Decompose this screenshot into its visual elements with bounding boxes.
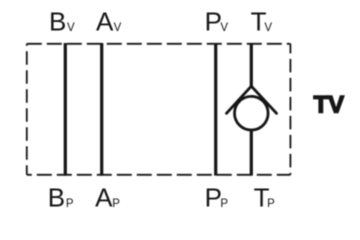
svg-text:A: A (96, 6, 114, 36)
dashed enclosure right edge (289, 44, 291, 175)
svg-text:P: P (66, 198, 74, 210)
svg-text:P: P (112, 198, 120, 210)
svg-text:V: V (264, 22, 272, 34)
svg-text:B: B (48, 182, 65, 212)
wire P line (214, 43, 217, 176)
wire B line (64, 43, 67, 176)
svg-text:A: A (95, 182, 113, 212)
dashed enclosure bottom edge (27, 174, 291, 176)
svg-text:P: P (205, 182, 222, 212)
svg-text:TV: TV (314, 92, 345, 119)
wire A line (100, 43, 103, 176)
svg-text:V: V (67, 22, 75, 34)
svg-text:P: P (267, 198, 275, 210)
wire T line upper segment (250, 43, 253, 87)
svg-text:P: P (205, 6, 222, 36)
svg-text:P: P (220, 198, 228, 210)
dashed enclosure top edge (27, 43, 291, 45)
svg-text:V: V (220, 22, 228, 34)
dashed enclosure left edge (26, 44, 28, 175)
svg-text:V: V (114, 22, 122, 34)
check valve V1 ball (235, 96, 269, 130)
wire T line lower segment (250, 130, 253, 176)
svg-text:B: B (49, 6, 66, 36)
check valve V1 seat (227, 86, 277, 113)
